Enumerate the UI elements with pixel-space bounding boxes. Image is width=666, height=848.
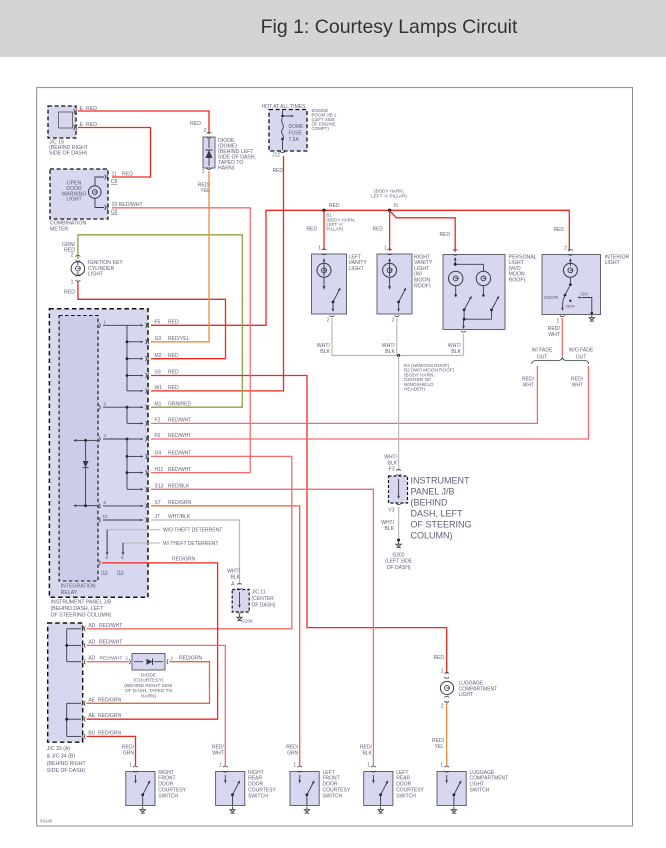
svg-text:1: 1	[384, 245, 387, 251]
svg-text:BLK: BLK	[362, 751, 372, 757]
integration relay internal contacts and diode	[73, 439, 98, 507]
svg-text:RED: RED	[64, 290, 75, 296]
svg-text:LIGHT: LIGHT	[88, 272, 104, 278]
svg-text:BLK: BLK	[385, 349, 395, 355]
wire RED/WHT from J/C33 pin AD to right rear door courtesy switch	[87, 645, 226, 766]
svg-text:PANEL J/B: PANEL J/B	[411, 487, 455, 497]
svg-text:RED: RED	[433, 655, 444, 661]
svg-text:COMBINATION: COMBINATION	[50, 221, 86, 227]
svg-text:2: 2	[564, 245, 567, 251]
svg-text:6: 6	[104, 500, 107, 505]
svg-text:& J/C 34 (B): & J/C 34 (B)	[47, 753, 76, 759]
svg-text:DOME: DOME	[289, 124, 305, 130]
interior light	[542, 245, 630, 338]
svg-text:RED: RED	[306, 227, 317, 233]
svg-text:S9: S9	[155, 370, 161, 376]
svg-text:ON: ON	[581, 291, 589, 297]
node B1 second body harness left A pillar	[388, 209, 391, 212]
svg-text:SWITCH: SWITCH	[158, 793, 178, 799]
wire RED/WHT from interior light pin 1 down to fade-out brace	[561, 318, 563, 356]
svg-text:YEL: YEL	[200, 188, 210, 194]
svg-text:2: 2	[104, 401, 107, 406]
instrument panel J/B outer box	[49, 309, 148, 619]
svg-text:W/O THEFT DETERRENT: W/O THEFT DETERRENT	[163, 528, 222, 534]
combination meter open door warning light	[50, 169, 144, 233]
relay output pins with labels	[146, 320, 192, 523]
fade out brace	[522, 348, 594, 389]
theft deterrent option labels	[163, 528, 222, 547]
svg-text:(BEHIND DASH, LEFT: (BEHIND DASH, LEFT	[51, 606, 105, 612]
node B1 labels	[306, 188, 564, 238]
relay pin 4 tree to F6 G4 H11 S13	[99, 433, 144, 490]
instrument panel J/B connector F3/V3	[381, 455, 471, 541]
svg-text:OF DASH): OF DASH)	[387, 565, 411, 571]
wire RED bus from node B1 with branch down to relay pin F5	[151, 210, 569, 325]
svg-text:WHT: WHT	[212, 751, 223, 757]
svg-text:(COURTESY): (COURTESY)	[134, 678, 164, 684]
wire RED from node B1 to left vanity light pin 1	[323, 210, 325, 250]
wire RED/WHT from relay pin F6 to W/O FADE OUT branch	[151, 366, 589, 439]
svg-text:SWITCH: SWITCH	[323, 793, 343, 799]
svg-text:2: 2	[204, 128, 207, 134]
svg-text:WHT: WHT	[548, 332, 561, 338]
svg-text:RED: RED	[190, 121, 201, 127]
node B3/B2 windshield header label	[404, 363, 455, 392]
svg-text:PILLAR): PILLAR)	[327, 226, 344, 231]
svg-text:WHT: WHT	[523, 383, 534, 389]
right vanity light	[377, 245, 433, 354]
svg-text:1: 1	[440, 763, 443, 769]
right front door courtesy switch	[122, 745, 187, 814]
ground G202	[385, 539, 413, 571]
svg-text:A: A	[231, 582, 235, 588]
svg-text:1: 1	[557, 319, 560, 325]
svg-text:OFF: OFF	[566, 304, 576, 310]
svg-text:J7: J7	[155, 514, 161, 520]
relay pins 8 and 6 connector I18	[99, 555, 195, 576]
integration relay inner box	[59, 316, 98, 596]
svg-text:BLK: BLK	[320, 349, 330, 355]
svg-text:W/ THEFT DETERRENT: W/ THEFT DETERRENT	[163, 541, 218, 547]
svg-text:G202: G202	[392, 553, 404, 559]
svg-text:RED/WHT: RED/WHT	[100, 656, 123, 662]
svg-text:RED: RED	[122, 171, 133, 177]
wire RED/WHT from J/C33 pin AD to diode (courtesy) pin 1	[87, 661, 130, 663]
svg-text:F5: F5	[155, 320, 161, 326]
wire RED branch to personal light pin	[390, 212, 455, 253]
left rear door courtesy switch	[360, 745, 425, 814]
svg-text:RED/YEL: RED/YEL	[168, 336, 190, 342]
svg-text:RED/WHT: RED/WHT	[168, 451, 191, 457]
svg-text:METER: METER	[50, 227, 68, 233]
wire RED from J/C16 pin E to open door warning light pin 11	[78, 128, 151, 178]
svg-text:1: 1	[318, 245, 321, 251]
svg-text:INSTRUMENT: INSTRUMENT	[411, 476, 470, 486]
wire WHT/BLK from pin V3 to ground G202	[398, 507, 400, 540]
svg-text:4: 4	[104, 433, 107, 438]
svg-text:OF STEERING COLUMN): OF STEERING COLUMN)	[51, 612, 112, 618]
svg-text:WHT/BLK: WHT/BLK	[168, 514, 191, 520]
frame border	[37, 88, 633, 826]
svg-text:W/ FADE: W/ FADE	[532, 348, 553, 354]
svg-text:1: 1	[219, 763, 222, 769]
svg-text:RED/WHT: RED/WHT	[119, 202, 144, 208]
wire RED/GRN from J/C33 pin BD to right front door courtesy switch	[87, 736, 136, 766]
svg-text:OF STEERING: OF STEERING	[411, 520, 472, 530]
svg-text:I18: I18	[101, 570, 108, 576]
wire WHT/BLK from relay pin J7 to J/C11 pin A	[151, 520, 240, 585]
svg-text:AD: AD	[88, 623, 95, 629]
svg-text:DOOR: DOOR	[544, 295, 559, 301]
svg-text:RED/GRN: RED/GRN	[172, 557, 195, 563]
wire RED/WHT from relay pin G4 to J/C33 pin AD	[87, 456, 292, 628]
personal light w/o moon roof	[443, 249, 537, 354]
svg-text:LEFT ‘A’ PILLAR): LEFT ‘A’ PILLAR)	[371, 194, 407, 199]
relay pin 1 tree to F5 G9 M2 S9 W1	[99, 319, 144, 392]
wire RED from node B1 to right vanity light pin 1	[389, 210, 391, 251]
wire RED from ignition key cylinder light pin 1 to relay pin M2	[78, 281, 226, 359]
junction connector J/C 33 and J/C 34	[47, 623, 123, 774]
svg-text:J/C 33 (A): J/C 33 (A)	[47, 746, 71, 752]
junction connector J/C 16	[48, 106, 97, 157]
svg-text:RELAY: RELAY	[61, 590, 78, 596]
svg-text:1: 1	[71, 280, 74, 286]
svg-text:1: 1	[129, 763, 132, 769]
svg-text:I18: I18	[117, 570, 124, 576]
svg-text:C8: C8	[111, 209, 118, 215]
svg-text:1: 1	[126, 656, 129, 661]
svg-text:G9: G9	[155, 336, 162, 342]
svg-text:BLK: BLK	[231, 574, 241, 580]
diode (courtesy)	[124, 654, 202, 700]
svg-text:LIGHT: LIGHT	[605, 260, 621, 266]
svg-text:E: E	[80, 106, 84, 112]
svg-text:8: 8	[106, 555, 109, 560]
svg-text:RED/GRN: RED/GRN	[98, 713, 121, 719]
svg-text:95440: 95440	[40, 819, 53, 824]
svg-text:AE: AE	[88, 697, 95, 703]
svg-text:G4: G4	[155, 451, 162, 457]
svg-text:DASH, LEFT: DASH, LEFT	[411, 509, 464, 519]
svg-text:1: 1	[367, 763, 370, 769]
relay pin 6 to S7	[99, 500, 144, 508]
svg-text:F2: F2	[155, 418, 161, 424]
svg-text:BLK: BLK	[451, 349, 461, 355]
drawing number	[40, 819, 53, 824]
svg-text:1: 1	[104, 319, 107, 324]
wire WHT/BLK from node B3/B2 down to instrument panel J/B pin F3	[398, 356, 400, 472]
svg-text:OF DASH): OF DASH)	[252, 603, 276, 609]
svg-text:INTEGRATION: INTEGRATION	[61, 584, 96, 590]
svg-text:C8: C8	[111, 179, 118, 185]
wire W/O theft deterrent option	[106, 530, 160, 556]
wire RED/GRN inside relay box from pins 8 and 6	[102, 562, 151, 564]
svg-text:J/C 11: J/C 11	[252, 590, 266, 596]
svg-text:1: 1	[441, 668, 444, 674]
svg-text:RED/GRN: RED/GRN	[98, 697, 121, 703]
svg-text:AD: AD	[88, 639, 95, 645]
svg-text:ROOF): ROOF)	[509, 278, 526, 284]
luggage compartment light	[432, 655, 497, 750]
svg-text:RED: RED	[64, 248, 75, 254]
svg-text:S13: S13	[155, 484, 164, 490]
svg-text:E: E	[80, 122, 84, 128]
svg-text:AE: AE	[88, 713, 95, 719]
svg-text:RED: RED	[86, 122, 97, 128]
wire WHT/BLK ground bus from vanity and personal lights	[332, 318, 464, 357]
svg-text:F3: F3	[389, 467, 395, 473]
svg-text:DIODE: DIODE	[141, 673, 156, 679]
junction connector J/C 11 and ground G206	[227, 569, 276, 624]
svg-text:W1: W1	[155, 385, 163, 391]
svg-text:RED: RED	[272, 168, 283, 174]
svg-text:(LEFT SIDE: (LEFT SIDE	[385, 559, 413, 565]
svg-text:6: 6	[121, 555, 124, 560]
svg-text:HARN): HARN)	[141, 693, 157, 699]
right rear door courtesy switch	[212, 745, 277, 814]
svg-text:FUSE: FUSE	[289, 130, 303, 136]
svg-text:SWITCH: SWITCH	[396, 793, 416, 799]
svg-text:COMPT): COMPT)	[312, 126, 330, 131]
svg-text:RED/WHT: RED/WHT	[168, 433, 191, 439]
engine room J/B 2 DOME fuse 7.5A	[262, 104, 337, 174]
svg-text:OUT: OUT	[537, 355, 548, 361]
svg-text:OF DASH, TAPED TO: OF DASH, TAPED TO	[125, 688, 173, 694]
svg-text:HEADER): HEADER)	[404, 387, 426, 392]
wire GRN/RED from ignition key cylinder light pin 2 to relay pin M1	[78, 235, 242, 407]
wire RED/WHT from relay pin F2 to W/ FADE OUT branch	[151, 366, 537, 423]
svg-text:LIGHT: LIGHT	[66, 197, 82, 203]
svg-text:(BEHIND RIGHT SIDE: (BEHIND RIGHT SIDE	[124, 683, 172, 689]
wire RED/BLK from relay pin S13 to left rear door courtesy switch	[151, 489, 373, 766]
svg-text:M2: M2	[155, 353, 162, 359]
svg-text:RED/GRN: RED/GRN	[98, 730, 121, 736]
svg-text:RED: RED	[168, 370, 179, 376]
left front door courtesy switch	[286, 745, 351, 814]
wire RED/GRN from relay pin S7 to left front door courtesy switch	[151, 506, 300, 766]
svg-text:RED: RED	[168, 385, 179, 391]
svg-text:RED/WHT: RED/WHT	[168, 467, 191, 473]
svg-text:W/O FADE: W/O FADE	[569, 348, 594, 354]
wire RED/YEL from diode (dome) pin 1 to relay pin G9	[151, 171, 209, 342]
wire RED/YEL from luggage compartment light pin 2 to luggage switch pin 1	[446, 701, 448, 766]
svg-text:S7: S7	[155, 500, 161, 506]
svg-text:1: 1	[202, 169, 205, 175]
relay pin 10 to J7	[99, 514, 144, 522]
svg-text:2: 2	[171, 656, 174, 661]
svg-text:F6: F6	[155, 433, 161, 439]
svg-text:BLK: BLK	[385, 526, 395, 532]
node B1 body harness left A pillar	[322, 209, 325, 212]
svg-text:J12: J12	[272, 153, 280, 159]
svg-text:10: 10	[103, 514, 109, 519]
svg-text:RED: RED	[329, 203, 340, 209]
svg-text:ROOF): ROOF)	[414, 283, 431, 289]
wire RED/GRN from relay pins 8/6 to J/C33 pin AE	[87, 563, 218, 719]
svg-text:RED/GRN: RED/GRN	[179, 656, 202, 662]
wire W/ theft deterrent option	[122, 543, 161, 556]
svg-text:(CENTER: (CENTER	[252, 596, 275, 602]
svg-text:SIDE OF DASH): SIDE OF DASH)	[49, 151, 88, 157]
svg-text:H11: H11	[155, 467, 164, 473]
svg-text:11: 11	[112, 171, 117, 177]
svg-text:10: 10	[112, 202, 118, 208]
svg-text:2: 2	[441, 704, 444, 710]
svg-text:2: 2	[392, 318, 395, 324]
svg-text:BD: BD	[88, 730, 95, 736]
wire RED from relay pin S9 to luggage compartment light pin 1	[151, 376, 447, 675]
svg-text:2: 2	[327, 318, 330, 324]
svg-text:RED/BLK: RED/BLK	[168, 484, 190, 490]
svg-text:RED/WHT: RED/WHT	[99, 623, 122, 629]
svg-text:GRN: GRN	[287, 751, 299, 757]
svg-text:RED: RED	[168, 353, 179, 359]
diode (dome)	[190, 121, 256, 194]
ignition key cylinder light	[62, 242, 123, 296]
wire RED from DOME fuse J12 down to relay pin W1	[151, 156, 284, 391]
svg-text:GRN: GRN	[123, 751, 135, 757]
svg-text:HARN): HARN)	[218, 166, 235, 172]
svg-text:RED: RED	[86, 106, 97, 112]
svg-text:RED: RED	[372, 227, 383, 233]
svg-text:7.5A: 7.5A	[289, 137, 300, 143]
luggage compartment light switch	[437, 763, 508, 814]
svg-text:RED: RED	[439, 232, 450, 238]
svg-text:(BEHIND: (BEHIND	[411, 498, 449, 508]
left vanity light	[312, 245, 368, 354]
svg-text:RED: RED	[168, 320, 179, 326]
svg-text:INSTRUMENT PANEL J/B: INSTRUMENT PANEL J/B	[51, 600, 112, 606]
wire RED/GRN from diode (courtesy) pin 2 to J/C33 pin AE	[87, 662, 210, 704]
svg-text:RED/GRN: RED/GRN	[168, 500, 191, 506]
svg-text:YEL: YEL	[435, 744, 445, 750]
svg-text:1: 1	[293, 763, 296, 769]
svg-text:SWITCH: SWITCH	[470, 788, 490, 794]
svg-text:LIGHT: LIGHT	[349, 266, 365, 272]
svg-text:SWITCH: SWITCH	[248, 793, 268, 799]
svg-text:RED: RED	[553, 227, 564, 233]
svg-text:V3: V3	[388, 508, 394, 514]
svg-text:B1: B1	[394, 203, 400, 208]
wire RED from J/C16 pin E to diode (dome) pin 2	[78, 111, 209, 134]
svg-text:AD: AD	[88, 656, 95, 662]
svg-text:COLUMN): COLUMN)	[411, 531, 453, 541]
svg-text:G206: G206	[241, 619, 253, 624]
svg-text:SIDE OF DASH): SIDE OF DASH)	[47, 768, 86, 774]
svg-text:GRN/RED: GRN/RED	[168, 401, 191, 407]
svg-text:LIGHT: LIGHT	[459, 692, 474, 698]
svg-text:OUT: OUT	[576, 355, 587, 361]
svg-text:RED/WHT: RED/WHT	[99, 639, 122, 645]
wire RED/WHT from open door warning light pin 10 to relay pin H11	[112, 208, 250, 473]
svg-text:M1: M1	[155, 401, 162, 407]
svg-text:(BEHIND RIGHT: (BEHIND RIGHT	[47, 761, 87, 767]
svg-text:WHT: WHT	[572, 383, 583, 389]
relay pin 2 tree to M1 F2	[99, 401, 144, 424]
svg-text:RED/WHT: RED/WHT	[168, 418, 191, 424]
